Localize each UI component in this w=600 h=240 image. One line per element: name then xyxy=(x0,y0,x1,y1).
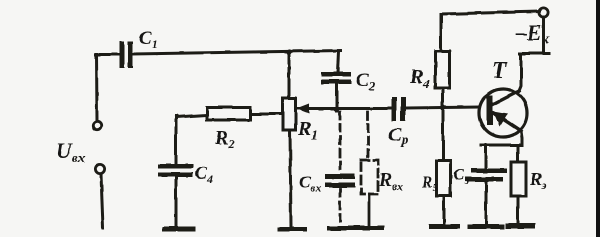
transistor T xyxy=(479,89,527,137)
resistor R2 xyxy=(207,108,250,121)
wire R5 top lead xyxy=(442,107,445,161)
ground under R5 xyxy=(429,224,460,229)
capacitor C2 xyxy=(321,72,351,84)
svg-text:R1: R1 xyxy=(297,118,318,142)
wire R3 bottom lead xyxy=(517,196,520,223)
capacitor Cвх (dashed, parasitic) xyxy=(325,112,355,226)
wire emitter down xyxy=(521,131,522,145)
R1 wiper arrow xyxy=(296,104,309,114)
capacitor Cp xyxy=(392,97,406,121)
capacitor C1 xyxy=(120,41,134,68)
resistor R4 xyxy=(436,51,450,88)
capacitor C3 xyxy=(465,169,507,182)
svg-text:C4: C4 xyxy=(195,163,213,186)
capacitor C4 xyxy=(158,164,193,177)
ground under R3 xyxy=(505,223,535,229)
wire emitter bar xyxy=(481,144,521,147)
resistor R5 xyxy=(437,161,451,196)
svg-text:Cр: Cр xyxy=(388,124,408,148)
svg-text:Cэ: Cэ xyxy=(453,165,469,187)
wire C4 top lead xyxy=(175,116,178,165)
wire top horizontal (C1 to C2 corner) xyxy=(133,51,341,55)
ground bar under Cвх and Rвх xyxy=(327,226,384,231)
svg-text:Rэ: Rэ xyxy=(529,169,547,192)
svg-text:T: T xyxy=(492,58,508,84)
wire R5 bottom lead xyxy=(443,196,446,224)
terminal upper input xyxy=(93,122,101,130)
svg-text:C1: C1 xyxy=(139,28,158,51)
wire R1 bottom lead xyxy=(290,130,291,227)
wire collector to supply xyxy=(519,17,549,91)
node junction R4-R5 on bus xyxy=(440,105,445,110)
wire R4 bottom lead xyxy=(441,88,444,107)
wire left vertical (input terminal lead) xyxy=(95,54,99,121)
wire R3 top lead xyxy=(517,145,520,162)
wire R2 left lead from C4 corner xyxy=(176,115,207,117)
ground under C4 xyxy=(162,227,195,232)
ground under C3 xyxy=(468,224,504,229)
wire signal bus Cp to base xyxy=(406,107,479,108)
svg-text:R2: R2 xyxy=(214,127,235,151)
resistor R3 xyxy=(511,162,526,196)
node junction C2 on bus xyxy=(334,107,339,112)
terminal -Ek xyxy=(539,8,548,17)
wire C3 top lead xyxy=(484,145,487,169)
wire top-left horizontal (input to C1) xyxy=(96,53,120,56)
wire C3 bottom lead xyxy=(485,182,488,225)
wire R4 top lead and top supply rail xyxy=(441,12,539,52)
wire C2 top lead xyxy=(338,51,339,73)
wire C4 bottom lead xyxy=(175,177,178,227)
svg-text:R4: R4 xyxy=(409,66,430,91)
wire R1 top lead xyxy=(288,52,291,98)
svg-text:C2: C2 xyxy=(356,70,376,93)
ground under R1 xyxy=(277,227,307,232)
wire signal bus R1 wiper to Cp xyxy=(296,107,392,110)
svg-text:Uвх: Uвх xyxy=(56,138,85,166)
wire C2 bottom lead xyxy=(336,84,339,111)
resistor R1 xyxy=(283,98,296,130)
wire R2 right lead to R1 xyxy=(250,113,283,116)
wire left lower vertical xyxy=(101,174,103,228)
svg-text:Rвх: Rвх xyxy=(378,170,403,193)
svg-text:Cвх: Cвх xyxy=(299,172,322,195)
node junction at R1 top xyxy=(286,49,291,54)
resistor Rвх (dashed, parasitic) xyxy=(361,112,378,226)
terminal lower input xyxy=(95,164,104,173)
